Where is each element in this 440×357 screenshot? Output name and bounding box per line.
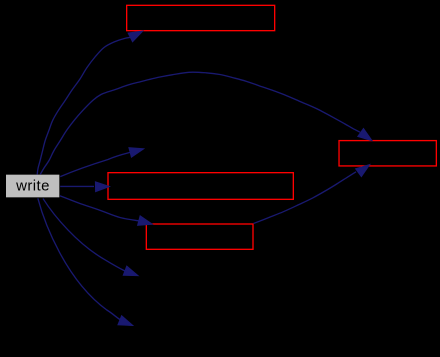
svg-text:write: write: [15, 177, 50, 194]
